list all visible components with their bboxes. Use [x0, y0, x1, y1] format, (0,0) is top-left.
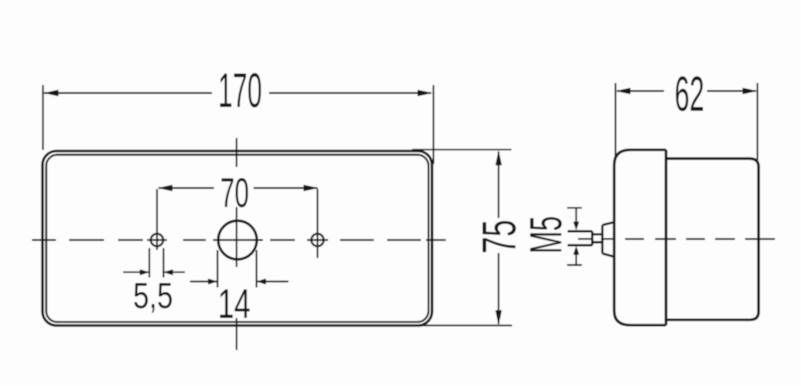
label M5: [530, 217, 562, 251]
dimension 170: [43, 85, 434, 164]
horizontal centerline left view: [32, 239, 446, 241]
dimension 70: [158, 185, 319, 191]
label 75: [483, 221, 516, 252]
extension line right hole: [317, 189, 319, 258]
M5 stud: [568, 222, 615, 256]
right view body outline: [666, 159, 759, 320]
label 62: [676, 76, 703, 111]
right view lens outline: [614, 150, 666, 325]
dimension 5,5: [123, 248, 185, 278]
label 5,5: [134, 283, 172, 313]
label 70: [221, 178, 247, 207]
label 14: [220, 289, 250, 317]
right view centerline: [578, 238, 775, 240]
right small hole: [311, 234, 323, 246]
vertical centerline left view: [236, 138, 238, 350]
left view inner lens edge: [46, 155, 428, 322]
center hole circle: [218, 221, 257, 260]
left small hole: [151, 234, 163, 246]
dimension 14: [190, 250, 289, 288]
right view lens/body boundary: [665, 150, 668, 325]
dimension 75: [412, 150, 512, 326]
left view outer outline: [43, 151, 433, 326]
dimension 62: [616, 83, 758, 160]
label 170: [220, 73, 261, 107]
M5 dimension arrows: [567, 208, 582, 265]
extension line left hole: [156, 189, 158, 250]
